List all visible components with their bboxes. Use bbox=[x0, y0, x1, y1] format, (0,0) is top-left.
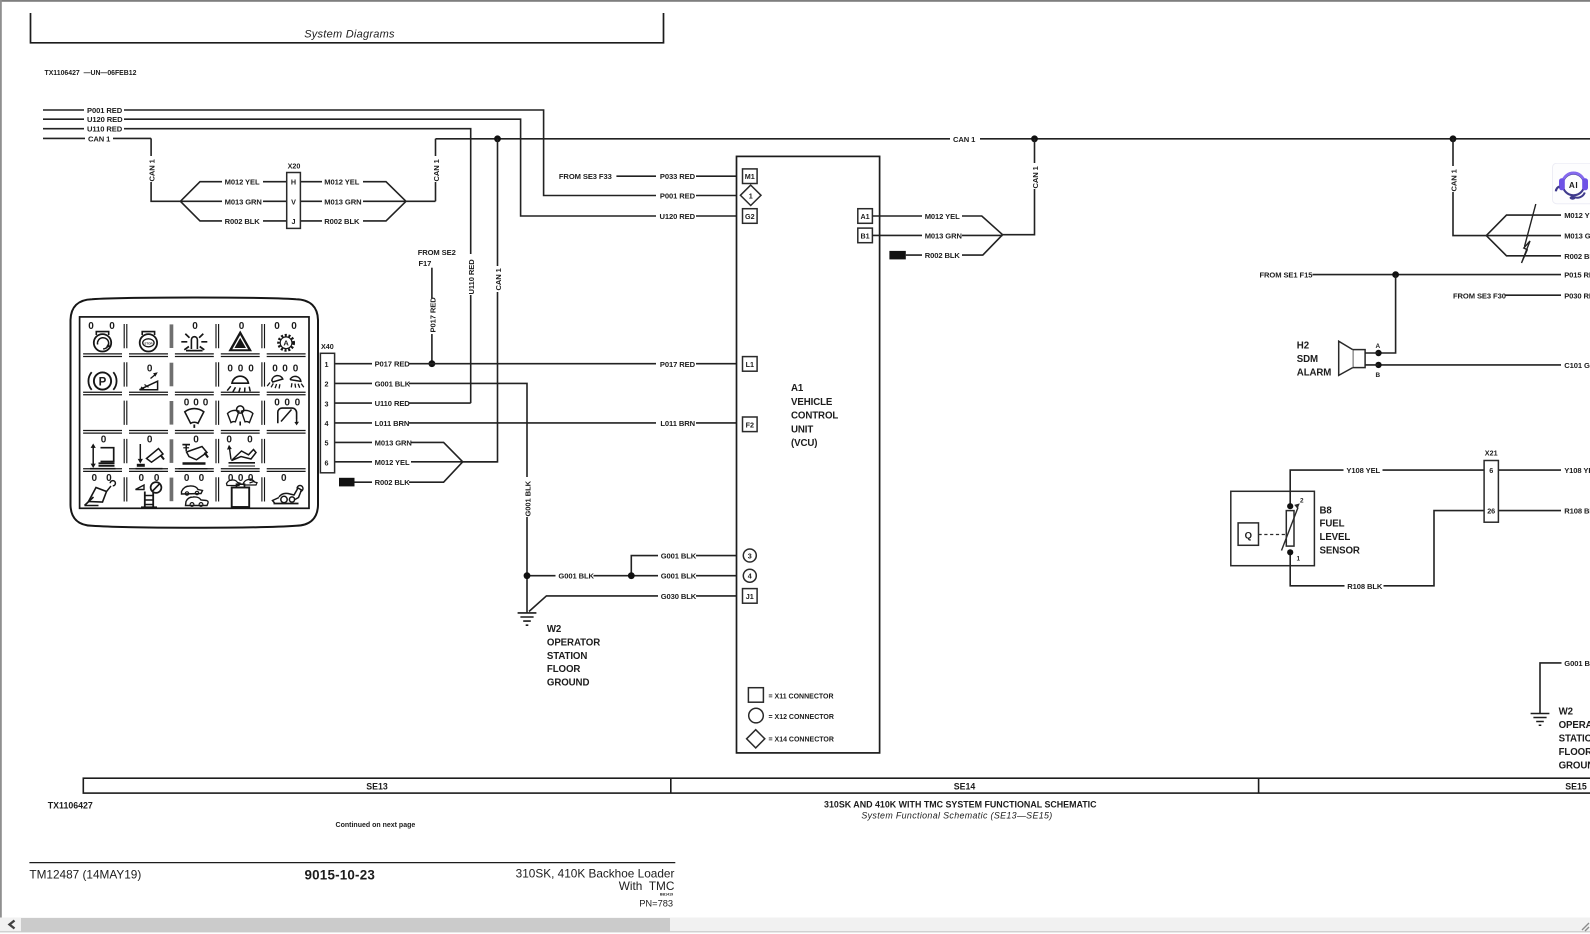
svg-text:CAN 1: CAN 1 bbox=[88, 134, 111, 143]
svg-text:0: 0 bbox=[184, 398, 190, 409]
svg-text:STATION: STATION bbox=[547, 651, 587, 662]
svg-text:P001 RED: P001 RED bbox=[660, 192, 696, 201]
svg-text:1: 1 bbox=[1297, 556, 1301, 563]
svg-text:3: 3 bbox=[748, 552, 752, 561]
svg-text:0: 0 bbox=[203, 398, 209, 409]
svg-text:310SK AND 410K WITH TMC SYSTEM: 310SK AND 410K WITH TMC SYSTEM FUNCTIONA… bbox=[824, 800, 1097, 810]
svg-text:SE14: SE14 bbox=[954, 781, 976, 791]
svg-text:0: 0 bbox=[184, 473, 190, 484]
svg-text:R108 BLK: R108 BLK bbox=[1347, 582, 1383, 591]
svg-text:2: 2 bbox=[1300, 498, 1304, 505]
svg-text:L011 BRN: L011 BRN bbox=[660, 419, 695, 428]
svg-text:P030 RED: P030 RED bbox=[1564, 291, 1590, 300]
svg-text:STOP: STOP bbox=[144, 341, 152, 345]
svg-text:0: 0 bbox=[101, 435, 107, 446]
svg-text:B1: B1 bbox=[860, 231, 869, 240]
svg-text:M013 GRN: M013 GRN bbox=[375, 438, 412, 447]
svg-text:System Diagrams: System Diagrams bbox=[304, 29, 395, 41]
svg-text:FROM SE3 F30: FROM SE3 F30 bbox=[1453, 291, 1506, 300]
svg-text:A1: A1 bbox=[860, 212, 869, 221]
svg-text:TX1106427 —UN—06FEB12: TX1106427 —UN—06FEB12 bbox=[45, 70, 137, 77]
svg-text:M012 YEL: M012 YEL bbox=[375, 458, 410, 467]
svg-text:AI: AI bbox=[1569, 181, 1578, 190]
svg-text:X40: X40 bbox=[321, 342, 334, 351]
svg-text:R002 BLK: R002 BLK bbox=[1564, 252, 1590, 261]
svg-text:GROUND: GROUND bbox=[1559, 761, 1590, 772]
svg-text:M012 YEL: M012 YEL bbox=[225, 178, 260, 187]
svg-text:(VCU): (VCU) bbox=[791, 438, 817, 449]
svg-text:G001 BLK: G001 BLK bbox=[558, 572, 594, 581]
svg-text:System Functional Schematic (S: System Functional Schematic (SE13—SE15) bbox=[861, 810, 1052, 820]
svg-text:M012 YEL: M012 YEL bbox=[1564, 211, 1590, 220]
svg-text:CONTROL: CONTROL bbox=[791, 411, 838, 422]
svg-text:G001 BLK: G001 BLK bbox=[661, 572, 697, 581]
svg-text:0: 0 bbox=[281, 473, 287, 484]
svg-text:M013 GRN: M013 GRN bbox=[324, 197, 361, 206]
svg-text:SE13: SE13 bbox=[366, 781, 388, 791]
svg-text:M1: M1 bbox=[745, 172, 755, 181]
svg-text:0: 0 bbox=[274, 398, 280, 409]
svg-text:0: 0 bbox=[139, 473, 145, 484]
svg-text:9015-10-23: 9015-10-23 bbox=[305, 868, 376, 883]
svg-text:26: 26 bbox=[1487, 507, 1495, 516]
svg-text:H: H bbox=[291, 178, 296, 187]
svg-text:0: 0 bbox=[199, 473, 205, 484]
svg-text:0: 0 bbox=[247, 435, 253, 446]
svg-text:P: P bbox=[99, 376, 107, 388]
svg-text:M012 YEL: M012 YEL bbox=[324, 178, 359, 187]
svg-text:Y108 YEL: Y108 YEL bbox=[1564, 466, 1590, 475]
svg-text:J1: J1 bbox=[746, 592, 754, 601]
svg-text:U120 RED: U120 RED bbox=[87, 115, 123, 124]
svg-text:X21: X21 bbox=[1485, 449, 1498, 458]
svg-text:PN=783: PN=783 bbox=[639, 899, 673, 909]
svg-text:V: V bbox=[291, 197, 296, 206]
svg-text:0: 0 bbox=[147, 363, 153, 374]
svg-text:0: 0 bbox=[228, 473, 234, 484]
svg-text:R002 BLK: R002 BLK bbox=[925, 251, 961, 260]
svg-text:0: 0 bbox=[238, 363, 244, 374]
svg-text:P001 RED: P001 RED bbox=[87, 106, 123, 115]
svg-text:OPERATOR: OPERATOR bbox=[1559, 720, 1590, 731]
svg-text:Continued on next page: Continued on next page bbox=[336, 822, 416, 829]
svg-text:GROUND: GROUND bbox=[547, 678, 590, 689]
svg-text:F2: F2 bbox=[746, 420, 754, 429]
svg-text:3: 3 bbox=[325, 399, 329, 408]
svg-text:6: 6 bbox=[1489, 466, 1493, 475]
svg-text:R108 BLK: R108 BLK bbox=[1564, 507, 1590, 516]
svg-text:P017 RED: P017 RED bbox=[660, 360, 696, 369]
svg-text:CAN 1: CAN 1 bbox=[1031, 165, 1040, 188]
svg-text:W2: W2 bbox=[1559, 707, 1573, 718]
svg-text:A: A bbox=[283, 339, 289, 348]
svg-text:OPERATOR: OPERATOR bbox=[547, 637, 600, 648]
svg-text:U110 RED: U110 RED bbox=[467, 259, 476, 295]
svg-text:C101 GRN: C101 GRN bbox=[1564, 361, 1590, 370]
svg-text:VEHICLE: VEHICLE bbox=[791, 397, 833, 408]
svg-text:0: 0 bbox=[193, 398, 199, 409]
svg-text:U110 RED: U110 RED bbox=[375, 399, 411, 408]
svg-text:FLOOR: FLOOR bbox=[1559, 747, 1590, 758]
svg-text:CAN 1: CAN 1 bbox=[148, 158, 157, 181]
svg-text:0: 0 bbox=[248, 363, 254, 374]
svg-text:F17: F17 bbox=[419, 259, 432, 268]
svg-text:G030 BLK: G030 BLK bbox=[661, 592, 697, 601]
svg-text:1: 1 bbox=[325, 360, 329, 369]
svg-text:0: 0 bbox=[92, 473, 98, 484]
svg-text:U110 RED: U110 RED bbox=[87, 125, 123, 134]
svg-text:B8: B8 bbox=[1320, 505, 1333, 516]
svg-text:1: 1 bbox=[749, 191, 753, 200]
svg-text:6: 6 bbox=[325, 458, 329, 467]
svg-text:With TMC: With TMC bbox=[619, 879, 675, 893]
svg-text:SE15: SE15 bbox=[1565, 781, 1587, 791]
svg-text:TX1106427: TX1106427 bbox=[48, 800, 93, 810]
svg-text:= X12 CONNECTOR: = X12 CONNECTOR bbox=[769, 714, 834, 721]
svg-text:P017 RED: P017 RED bbox=[375, 360, 411, 369]
svg-text:G001 BLK: G001 BLK bbox=[661, 552, 697, 561]
svg-text:0: 0 bbox=[295, 398, 301, 409]
svg-text:Q: Q bbox=[1245, 530, 1252, 541]
svg-text:SENSOR: SENSOR bbox=[1320, 546, 1360, 557]
svg-text:M013 GRN: M013 GRN bbox=[925, 231, 962, 240]
svg-text:LEVEL: LEVEL bbox=[1320, 532, 1351, 543]
svg-text:0: 0 bbox=[272, 363, 278, 374]
svg-text:0: 0 bbox=[226, 435, 232, 446]
svg-text:5: 5 bbox=[325, 439, 329, 448]
svg-text:2: 2 bbox=[325, 380, 329, 389]
svg-text:= X11 CONNECTOR: = X11 CONNECTOR bbox=[769, 694, 834, 701]
svg-text:0: 0 bbox=[147, 435, 153, 446]
svg-text:FROM SE3 F33: FROM SE3 F33 bbox=[559, 172, 612, 181]
svg-text:J: J bbox=[292, 217, 296, 226]
svg-text:FLOOR: FLOOR bbox=[547, 664, 581, 675]
svg-text:BB1419: BB1419 bbox=[660, 893, 673, 897]
svg-text:R002 BLK: R002 BLK bbox=[324, 217, 360, 226]
svg-text:P017 RED: P017 RED bbox=[429, 297, 438, 333]
svg-text:B: B bbox=[1376, 372, 1381, 379]
svg-text:R002 BLK: R002 BLK bbox=[225, 217, 261, 226]
svg-text:FROM SE1 F15: FROM SE1 F15 bbox=[1260, 271, 1314, 280]
svg-text:A: A bbox=[1376, 343, 1381, 350]
svg-text:CAN 1: CAN 1 bbox=[494, 267, 503, 290]
svg-text:CAN 1: CAN 1 bbox=[432, 158, 441, 181]
svg-text:0: 0 bbox=[284, 398, 290, 409]
svg-text:0: 0 bbox=[293, 363, 299, 374]
svg-text:P015 RED: P015 RED bbox=[1564, 271, 1590, 280]
svg-text:R002 BLK: R002 BLK bbox=[375, 478, 411, 487]
svg-text:L011 BRN: L011 BRN bbox=[375, 419, 410, 428]
svg-text:Y108 YEL: Y108 YEL bbox=[1346, 466, 1380, 475]
svg-text:0: 0 bbox=[109, 321, 115, 332]
svg-text:UNIT: UNIT bbox=[791, 424, 813, 435]
svg-text:0: 0 bbox=[192, 321, 198, 332]
svg-text:X20: X20 bbox=[288, 162, 301, 171]
svg-text:G2: G2 bbox=[745, 212, 755, 221]
svg-text:G001 BLK: G001 BLK bbox=[524, 480, 533, 516]
svg-text:0: 0 bbox=[193, 435, 199, 446]
svg-text:M013 GRN: M013 GRN bbox=[225, 197, 262, 206]
svg-text:G001 BLK: G001 BLK bbox=[375, 379, 411, 388]
svg-text:CAN 1: CAN 1 bbox=[953, 135, 976, 144]
svg-text:SDM: SDM bbox=[1297, 354, 1318, 365]
svg-text:0: 0 bbox=[227, 363, 233, 374]
svg-text:0: 0 bbox=[88, 321, 94, 332]
svg-text:W2: W2 bbox=[547, 624, 561, 635]
svg-text:FUEL: FUEL bbox=[1320, 519, 1345, 530]
svg-text:STATION: STATION bbox=[1559, 734, 1590, 745]
svg-text:4: 4 bbox=[748, 572, 752, 581]
svg-text:H2: H2 bbox=[1297, 341, 1309, 352]
svg-text:ALARM: ALARM bbox=[1297, 368, 1332, 379]
svg-text:CAN 1: CAN 1 bbox=[1450, 168, 1459, 191]
svg-text:A1: A1 bbox=[791, 383, 804, 394]
svg-text:4: 4 bbox=[325, 419, 329, 428]
svg-text:L1: L1 bbox=[746, 360, 754, 369]
svg-text:FROM SE2: FROM SE2 bbox=[418, 248, 456, 257]
svg-text:U120 RED: U120 RED bbox=[660, 212, 696, 221]
svg-text:0: 0 bbox=[274, 321, 280, 332]
svg-text:0: 0 bbox=[291, 321, 297, 332]
svg-text:0: 0 bbox=[239, 321, 245, 332]
svg-text:P033 RED: P033 RED bbox=[660, 172, 696, 181]
svg-text:G001 BLK: G001 BLK bbox=[1564, 659, 1590, 668]
svg-text:= X14 CONNECTOR: = X14 CONNECTOR bbox=[769, 737, 834, 744]
svg-text:TM12487 (14MAY19): TM12487 (14MAY19) bbox=[29, 868, 141, 882]
svg-text:0: 0 bbox=[106, 473, 112, 484]
svg-text:M012 YEL: M012 YEL bbox=[925, 212, 960, 221]
svg-text:0: 0 bbox=[282, 363, 288, 374]
svg-text:M013 GRN: M013 GRN bbox=[1564, 232, 1590, 241]
